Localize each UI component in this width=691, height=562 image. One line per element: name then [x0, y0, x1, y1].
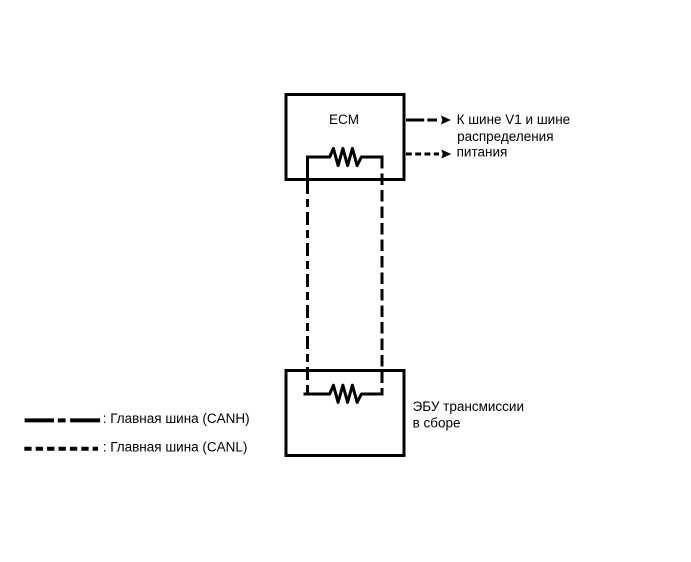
legend CANL line sample (dashed) — [24, 447, 98, 451]
svg-text:: Главная шина (CANL): : Главная шина (CANL) — [103, 440, 248, 455]
ECM box — [286, 95, 404, 180]
wire CANH stub inside ECM (solid) — [306, 157, 309, 181]
transmission ECU box — [286, 371, 404, 456]
arrow to power distribution (CANL dashed) — [406, 150, 451, 159]
svg-text:ЭБУ трансмиссии: ЭБУ трансмиссии — [413, 399, 524, 414]
svg-text:питания: питания — [457, 145, 508, 160]
svg-text:ECM: ECM — [329, 112, 359, 127]
arrow to V1 bus (CANH dash-dot) — [406, 116, 451, 125]
resistor R1 (terminating resistor inside ECM) — [306, 148, 384, 165]
node label: ЭБУ трансмиссии в сборе — [413, 399, 524, 430]
svg-text:в сборе: в сборе — [413, 415, 461, 430]
svg-text:: Главная шина (CANH): : Главная шина (CANH) — [103, 411, 250, 426]
wire CANL main bus vertical (dashed) — [381, 157, 384, 394]
legend CANH line sample (dash-dot) — [25, 418, 101, 422]
svg-text:К шине V1 и шине: К шине V1 и шине — [457, 112, 571, 127]
node label: К шине V1 и шине распределения питания — [457, 112, 571, 160]
svg-text:распределения: распределения — [457, 129, 553, 144]
resistor R2 (terminating resistor inside transmission ECU) — [304, 385, 384, 402]
wire CANH main bus vertical (dash-dot) — [306, 181, 309, 394]
